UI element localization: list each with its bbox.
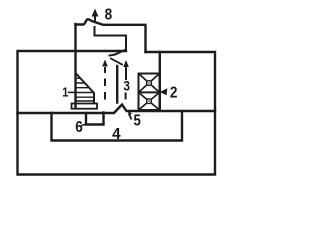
shelf with deflector hump xyxy=(18,105,216,114)
chimney left wall xyxy=(74,24,76,107)
arrow 3 (solid) xyxy=(123,60,129,100)
fan plenum wall xyxy=(159,52,161,111)
chimney outer top with lip bump xyxy=(76,19,146,52)
wedge heater 1 hatch xyxy=(74,78,96,101)
svg-text:5: 5 xyxy=(134,113,141,130)
svg-text:2: 2 xyxy=(170,84,178,101)
dashed arrow (riser flow) xyxy=(102,60,108,100)
svg-text:4: 4 xyxy=(112,126,121,143)
arrow 8 xyxy=(92,9,99,23)
downcomer wall xyxy=(116,66,118,103)
outer casing box xyxy=(18,51,216,175)
leader 1 xyxy=(68,91,75,93)
svg-text:1: 1 xyxy=(62,86,69,100)
fan hub bottom xyxy=(147,99,152,104)
fan bottom cell X xyxy=(139,92,160,110)
svg-text:8: 8 xyxy=(105,6,113,23)
leader 6 xyxy=(82,124,87,126)
chimney inner wall xyxy=(95,27,127,56)
svg-text:6: 6 xyxy=(75,119,83,136)
arrow 5 xyxy=(128,111,132,120)
fan top cell X xyxy=(139,74,160,93)
box 6 xyxy=(86,113,104,125)
fan mid divider xyxy=(139,91,160,93)
pedestal under wedge xyxy=(72,104,98,109)
inner bottom box (chamber 4) xyxy=(52,111,183,141)
fan hub top xyxy=(147,81,152,86)
damper flap xyxy=(111,59,122,65)
pointer 2 arrowhead xyxy=(160,88,168,95)
wedge heater 1 outline xyxy=(76,74,94,104)
fan unit 2 outer xyxy=(139,74,160,111)
svg-text:3: 3 xyxy=(123,78,130,94)
